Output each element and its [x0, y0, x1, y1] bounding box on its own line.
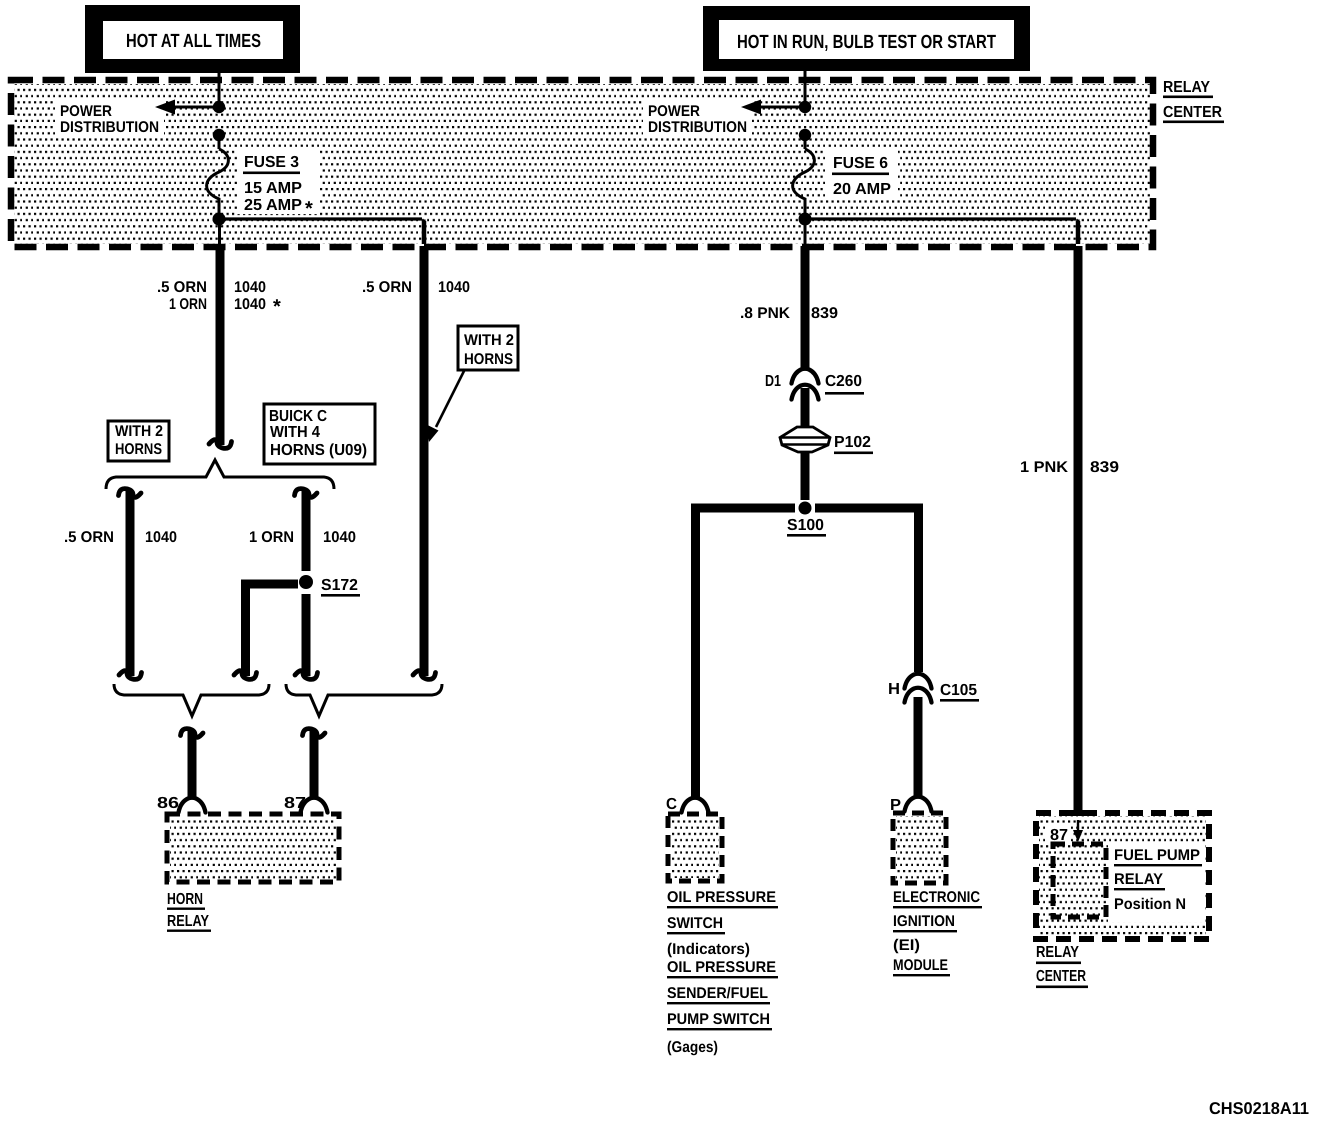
- fuel pump relay inner box: [1053, 844, 1106, 917]
- wire through band bottom (right main): [804, 219, 807, 246]
- oil pressure switch box: [668, 814, 722, 881]
- svg-text:.5 ORN: .5 ORN: [362, 279, 412, 296]
- svg-text:POWER: POWER: [648, 103, 700, 120]
- label ELECTRONIC IGNITION (EI) MODULE: [893, 889, 982, 976]
- svg-text:POWER: POWER: [60, 103, 112, 120]
- svg-text:HORN: HORN: [167, 891, 203, 908]
- svg-text:WITH 4: WITH 4: [270, 424, 320, 441]
- label RELAY CENTER (top right): [1163, 79, 1224, 123]
- svg-text:1040: 1040: [234, 296, 266, 313]
- label POWER DISTRIBUTION (right): [643, 98, 752, 137]
- svg-text:HORNS: HORNS: [115, 441, 162, 458]
- label C260: [825, 373, 864, 395]
- svg-text:15 AMP: 15 AMP: [244, 180, 302, 197]
- wire: [218, 135, 221, 149]
- wire: 1 PNK 839 to fuel pump relay (thick): [1074, 246, 1083, 820]
- label RELAY CENTER (below fuel pump relay): [1036, 944, 1088, 988]
- fuse F6 element: [793, 149, 815, 214]
- label FUSE 3 / 15 AMP / 25 AMP *: [237, 150, 320, 220]
- svg-text:WITH 2: WITH 2: [115, 423, 163, 440]
- svg-text:87: 87: [284, 795, 306, 812]
- svg-text:(Gages): (Gages): [667, 1039, 718, 1056]
- wire through band bottom (left main): [218, 219, 221, 246]
- svg-text:D1: D1: [765, 373, 781, 390]
- svg-text:1 ORN: 1 ORN: [249, 529, 294, 546]
- svg-text:1 PNK: 1 PNK: [1020, 459, 1069, 476]
- label S100: [787, 517, 826, 537]
- svg-text:1040: 1040: [323, 529, 356, 546]
- svg-text:HORNS: HORNS: [464, 351, 513, 368]
- svg-text:BUICK C: BUICK C: [269, 408, 327, 425]
- label FUEL PUMP RELAY Position N: [1114, 847, 1202, 913]
- fuel pump relay outer box (relay center): [1036, 813, 1209, 939]
- svg-text:86: 86: [157, 795, 179, 812]
- svg-text:P102: P102: [834, 434, 871, 451]
- label P102: [834, 434, 873, 454]
- svg-text:HOT IN RUN, BULB TEST OR START: HOT IN RUN, BULB TEST OR START: [737, 32, 996, 53]
- svg-text:RELAY: RELAY: [167, 913, 209, 930]
- svg-text:CHS0218A11: CHS0218A11: [1209, 1099, 1309, 1118]
- wire: right main .8 PNK 839 (thick): [801, 246, 810, 369]
- junction dot: [799, 101, 811, 113]
- wire to horn relay pin 86: [181, 729, 204, 799]
- wire: S100 right branch to C105: [815, 508, 919, 672]
- wire: [801, 452, 810, 500]
- wire: S100 left branch to oil pressure switch: [696, 508, 796, 799]
- svg-text:.5 ORN: .5 ORN: [64, 529, 114, 546]
- label POWER DISTRIBUTION (left): [55, 98, 164, 137]
- title box HOT IN RUN, BULB TEST OR START: [703, 6, 1030, 71]
- wire: .5 ORN to horn relay 86: [119, 489, 142, 680]
- wire terminal arrow into relay: [1073, 820, 1083, 842]
- grommet P102: [780, 427, 830, 452]
- svg-text:839: 839: [811, 305, 838, 322]
- label .5 ORN 1040 (branch): [362, 279, 470, 296]
- arrow from WITH 2 HORNS to branch wire: [427, 369, 466, 442]
- svg-text:SENDER/FUEL: SENDER/FUEL: [667, 985, 768, 1002]
- svg-text:1 ORN: 1 ORN: [169, 296, 207, 313]
- junction dot: [799, 129, 811, 141]
- label HORN RELAY: [167, 891, 211, 932]
- fuse F3 element: [207, 149, 229, 214]
- wire: HOT IN RUN feed into band: [804, 71, 807, 104]
- wire: branch to fuel pump relay feed: [805, 219, 1078, 244]
- wire: S172 branch elbow down: [234, 584, 298, 679]
- svg-text:S172: S172: [321, 577, 358, 594]
- svg-text:*: *: [305, 198, 313, 220]
- svg-text:HORNS (U09): HORNS (U09): [270, 442, 367, 459]
- callout box BUICK C WITH 4 HORNS (U09): [264, 404, 375, 464]
- svg-text:RELAY: RELAY: [1036, 944, 1079, 961]
- callout box WITH 2 HORNS (right): [458, 326, 518, 370]
- wire: left main circuit 1040 (thick): [216, 246, 225, 445]
- wire: branch to second horn feed: [219, 219, 424, 244]
- svg-text:WITH 2: WITH 2: [464, 332, 514, 349]
- svg-text:C105: C105: [940, 682, 977, 699]
- svg-text:MODULE: MODULE: [893, 957, 948, 974]
- wire end hook: [413, 671, 436, 680]
- horn relay box: [167, 814, 339, 882]
- wire: 1 ORN to horn relay 87: [295, 489, 318, 680]
- pin C connector arc (oil pressure switch): [682, 798, 709, 813]
- junction dot below fuse 6: [799, 213, 812, 226]
- svg-text:(EI): (EI): [893, 937, 920, 954]
- svg-text:DISTRIBUTION: DISTRIBUTION: [648, 119, 747, 136]
- pin label 87: [1045, 823, 1071, 844]
- svg-text:.8 PNK: .8 PNK: [740, 305, 791, 322]
- junction dot: [213, 101, 225, 113]
- label .8 PNK 839: [740, 305, 838, 322]
- power distribution arrow (right): [741, 100, 805, 115]
- svg-text:RELAY: RELAY: [1163, 79, 1210, 96]
- svg-text:PUMP SWITCH: PUMP SWITCH: [667, 1011, 770, 1028]
- svg-text:FUEL PUMP: FUEL PUMP: [1114, 847, 1200, 864]
- svg-text:CENTER: CENTER: [1163, 104, 1222, 121]
- wire: with-2-horns branch 1040 (thick): [420, 246, 429, 676]
- svg-text:HOT AT ALL TIMES: HOT AT ALL TIMES: [126, 31, 261, 52]
- svg-text:C: C: [666, 796, 677, 813]
- relay center band (stippled dashed box): [11, 80, 1153, 247]
- wire to horn relay pin 87: [303, 729, 326, 799]
- svg-text:.5 ORN: .5 ORN: [157, 279, 207, 296]
- label C105: [940, 682, 979, 702]
- brace (up) splitting left feed: [106, 460, 334, 489]
- white text backplate: [1108, 845, 1205, 922]
- svg-text:RELAY: RELAY: [1114, 871, 1164, 888]
- svg-text:DISTRIBUTION: DISTRIBUTION: [60, 119, 159, 136]
- svg-text:SWITCH: SWITCH: [667, 915, 723, 932]
- wire: [801, 388, 810, 428]
- svg-text:H: H: [888, 681, 900, 698]
- wire: [804, 135, 807, 149]
- svg-text:*: *: [273, 296, 281, 318]
- connector C260 (in-line, two arcs): [792, 369, 819, 400]
- svg-text:1040: 1040: [145, 529, 177, 546]
- pin 86 connector arc: [179, 798, 206, 813]
- wire: [914, 697, 923, 797]
- svg-text:OIL PRESSURE: OIL PRESSURE: [667, 889, 776, 906]
- svg-text:Position N: Position N: [1114, 896, 1186, 913]
- svg-text:FUSE 3: FUSE 3: [244, 154, 299, 171]
- label S172: [321, 577, 360, 597]
- svg-text:IGNITION: IGNITION: [893, 913, 955, 930]
- label FUSE 6 / 20 AMP: [826, 150, 898, 200]
- svg-text:S100: S100: [787, 517, 824, 534]
- label .5 ORN 1040: [64, 529, 177, 546]
- callout box WITH 2 HORNS (left): [108, 421, 169, 461]
- svg-text:87: 87: [1050, 827, 1068, 844]
- svg-text:OIL PRESSURE: OIL PRESSURE: [667, 959, 776, 976]
- label OIL PRESSURE SWITCH (Indicators) OIL PRESSURE SENDER/FUEL PUMP SWITCH (Gages): [667, 889, 778, 1056]
- connector C105 (in-line, two arcs): [905, 674, 932, 703]
- wire: HOT AT ALL TIMES feed into band: [218, 73, 221, 104]
- svg-text:1040: 1040: [438, 279, 470, 296]
- power distribution arrow (left): [155, 100, 219, 115]
- electronic ignition module box: [893, 813, 946, 883]
- label .5 ORN 1040 / 1 ORN 1040 *: [157, 279, 281, 318]
- svg-text:20 AMP: 20 AMP: [833, 181, 891, 198]
- title box HOT AT ALL TIMES: [85, 5, 300, 73]
- junction dot: [213, 129, 225, 141]
- label 1 PNK 839: [1020, 459, 1119, 476]
- svg-text:25 AMP: 25 AMP: [244, 197, 302, 214]
- svg-text:CENTER: CENTER: [1036, 968, 1086, 985]
- svg-text:FUSE 6: FUSE 6: [833, 155, 888, 172]
- label 1 ORN 1040: [249, 529, 356, 546]
- pin 87 connector arc: [301, 798, 328, 813]
- svg-text:(Indicators): (Indicators): [667, 941, 750, 958]
- svg-text:1040: 1040: [234, 279, 266, 296]
- svg-text:ELECTRONIC: ELECTRONIC: [893, 889, 980, 906]
- junction dot below fuse 3: [213, 213, 226, 226]
- svg-text:C260: C260: [825, 373, 862, 390]
- svg-text:839: 839: [1090, 459, 1119, 476]
- splice S100 junction dot: [799, 502, 812, 515]
- wire end hook: [209, 440, 232, 449]
- pin P connector arc (EI module): [905, 797, 932, 812]
- brace (down) joining 87 feeds: [286, 684, 442, 716]
- brace (down) joining 86 feeds: [114, 684, 269, 716]
- splice S172 junction dot: [299, 575, 313, 589]
